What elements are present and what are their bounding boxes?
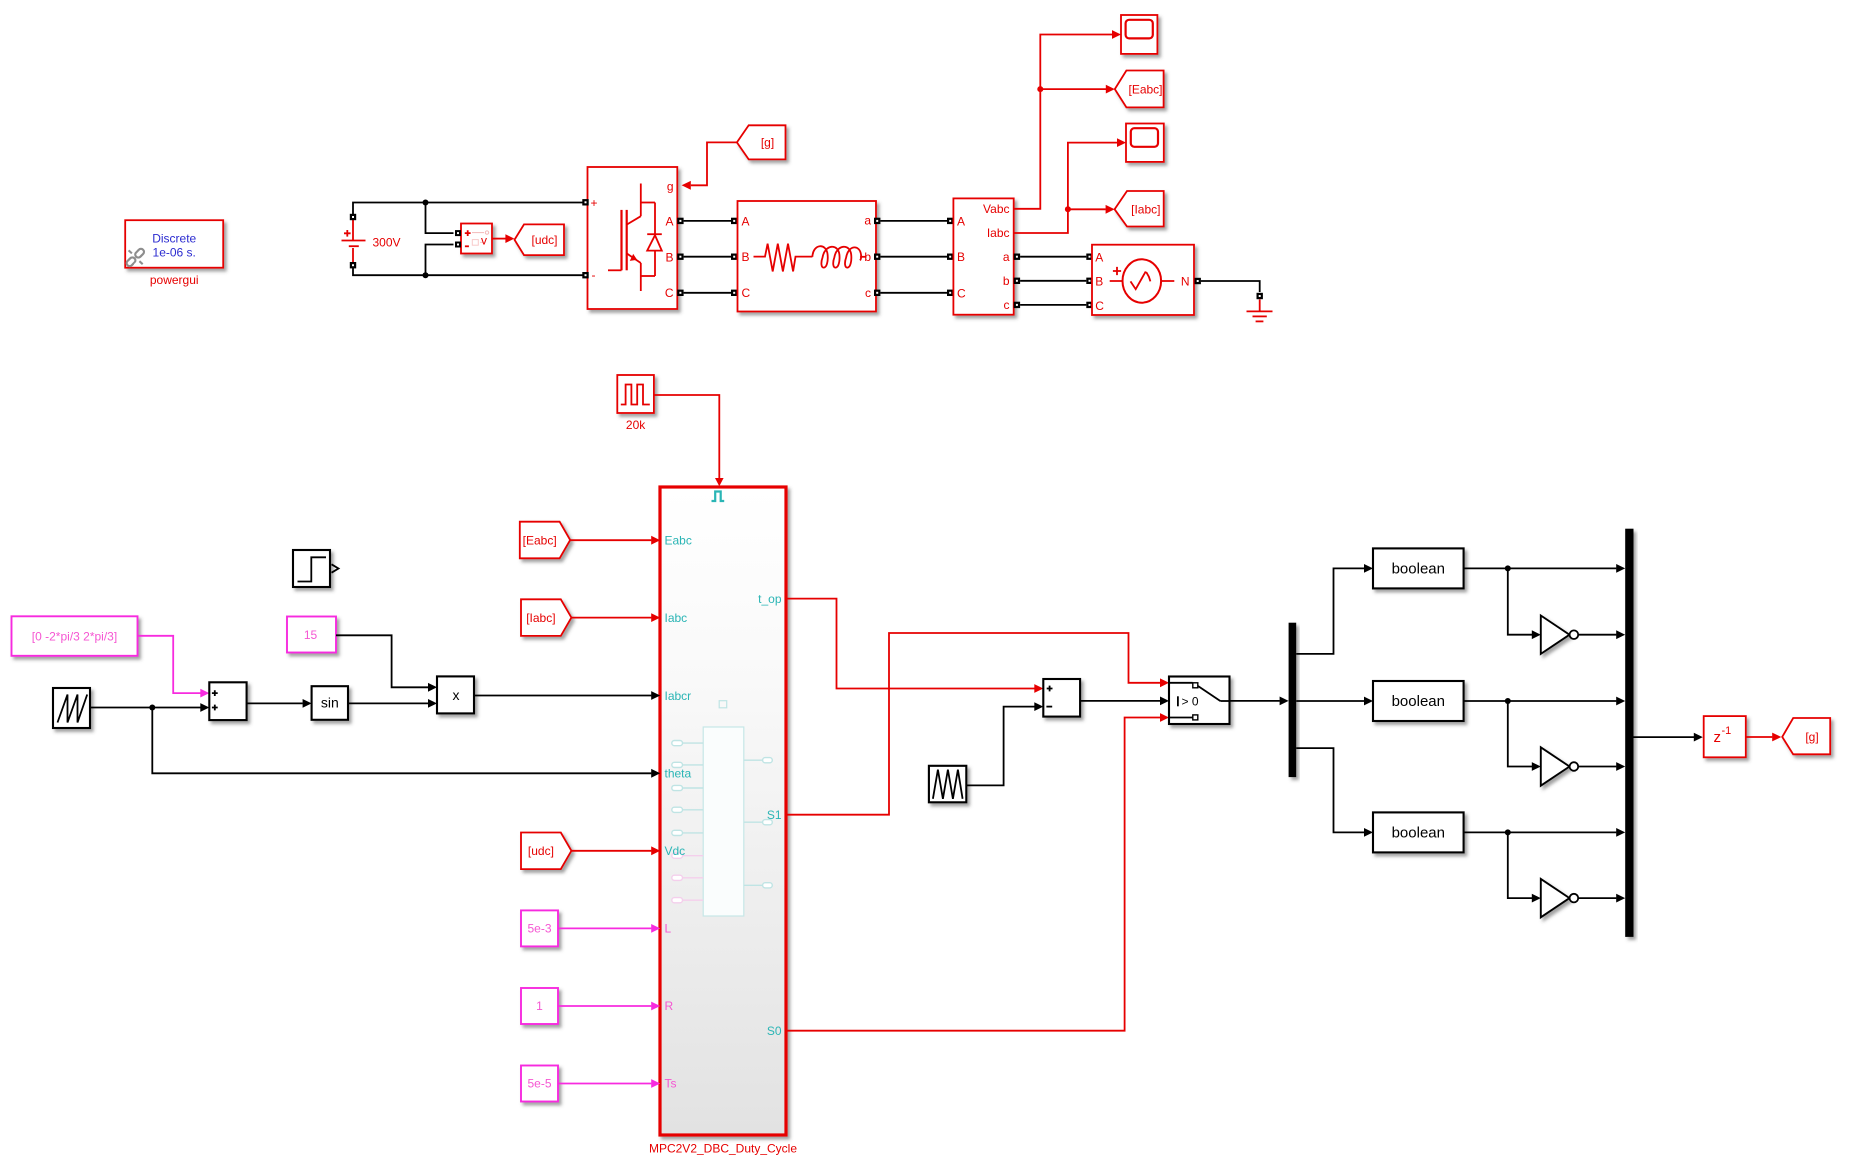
wire: NOT1 to mux in2 [1578, 634, 1616, 636]
sum block 2 (+/-) [1043, 679, 1080, 717]
svg-text:B: B [1095, 275, 1103, 289]
svg-text:z: z [1714, 729, 1722, 746]
wire: RL b to measurement B [880, 256, 947, 258]
svg-text:> 0: > 0 [1182, 694, 1199, 708]
svg-text:[g]: [g] [1805, 730, 1818, 744]
svg-text:S1: S1 [767, 808, 782, 822]
svg-text:[Eabc]: [Eabc] [1128, 82, 1162, 96]
wire: boolean2 to mux in3 [1464, 700, 1617, 702]
three-phase V-I measurement block [953, 198, 1013, 314]
svg-text:L: L [665, 922, 672, 936]
port: bridge output C [677, 290, 683, 296]
wire: MPC S0 to switch input 3 [786, 718, 1160, 1031]
wire: sum1 to sin [247, 702, 303, 704]
wire: branch to NOT gate 1 [1508, 568, 1532, 634]
unit delay z^-1 [1704, 716, 1746, 757]
port: bridge + input [582, 199, 588, 205]
svg-text:5e-3: 5e-3 [527, 922, 551, 936]
wire: MPC t_op to sum2 + [786, 599, 1035, 689]
node: boolean3 branch [1505, 829, 1511, 835]
pulse generator 20k [617, 375, 654, 413]
svg-text:MPC2V2_DBC_Duty_Cycle: MPC2V2_DBC_Duty_Cycle [649, 1142, 797, 1156]
svg-text:1e-06 s.: 1e-06 s. [153, 245, 196, 259]
wire: branch to NOT gate 2 [1508, 701, 1532, 767]
svg-text:A: A [742, 214, 750, 228]
demux bar [1289, 623, 1297, 777]
svg-text:[0 -2*pi/3 2*pi/3]: [0 -2*pi/3 2*pi/3] [32, 629, 117, 643]
svg-text:C: C [665, 286, 674, 300]
svg-text:A: A [665, 214, 673, 228]
port: voltage measurement - input [455, 242, 461, 248]
svg-text:R: R [665, 999, 674, 1013]
port: RL input B [731, 254, 737, 260]
wire: measurement a to source A [1020, 256, 1086, 258]
trigger port icon [712, 492, 725, 502]
svg-text:Eabc: Eabc [665, 534, 692, 548]
goto tag [Eabc] [1115, 71, 1164, 108]
port: measurement output a [1014, 254, 1020, 260]
constant 5e-5 [521, 1066, 558, 1102]
IGBT with antiparallel diode icon [608, 184, 662, 292]
svg-text:N: N [1181, 275, 1190, 289]
port: source input C [1086, 302, 1092, 308]
constant 5e-3 [521, 910, 558, 946]
from tag [g] feeding bridge gate [737, 125, 786, 159]
wire: [Eabc] to MPC Eabc [570, 539, 651, 541]
sin block [312, 686, 348, 720]
svg-text:Vdc: Vdc [665, 844, 686, 858]
svg-text:theta: theta [665, 767, 692, 781]
wire: NOT2 to mux in4 [1578, 766, 1616, 768]
wire: boolean3 to mux in5 [1464, 831, 1617, 833]
wire: measurement c to source C [1020, 304, 1086, 306]
svg-text:Iabcr: Iabcr [665, 689, 692, 703]
port: step unconnected output [332, 564, 339, 572]
wire: branch to MPC theta [152, 708, 651, 774]
port: measurement input C [947, 290, 953, 296]
svg-text:Discrete: Discrete [152, 231, 196, 245]
node: boolean1 branch [1505, 565, 1511, 571]
svg-text:Ts: Ts [665, 1077, 677, 1091]
goto tag [Iabc] [1115, 191, 1164, 227]
interior preview: right pills and stubs [744, 758, 773, 888]
svg-text:boolean: boolean [1392, 561, 1445, 578]
wire: [Iabc] to MPC Iabc [571, 617, 651, 619]
wire: RL a to measurement A [880, 220, 947, 222]
wire: NOT3 to mux in6 [1578, 897, 1616, 899]
svg-text:[g]: [g] [761, 136, 774, 150]
wire: MPC S1 to switch input 1 [786, 633, 1160, 815]
wire: [g] to bridge gate input [691, 142, 737, 185]
svg-text:[Iabc]: [Iabc] [526, 611, 555, 625]
svg-text:powergui: powergui [150, 273, 199, 287]
svg-text:A: A [1095, 251, 1103, 265]
wire: boolean1 to mux in1 [1464, 567, 1617, 569]
port: bridge - input [582, 272, 588, 278]
switch block (criteria > 0) [1169, 677, 1230, 725]
wire: demux out1 to boolean1 [1296, 568, 1364, 654]
svg-text:[udc]: [udc] [531, 233, 557, 247]
inductor icon [812, 246, 866, 267]
wire: demux out3 to boolean3 [1296, 748, 1364, 832]
port: RL output b [874, 254, 880, 260]
svg-text:+: + [591, 196, 598, 210]
three-phase series RL branch block [738, 201, 877, 312]
wire: voltage measurement v to [udc] goto [492, 238, 506, 240]
wire: sawtooth1 to sum1 [90, 707, 201, 709]
wire: phase constant to sum1 [138, 636, 201, 693]
wire: 15 to product [336, 635, 428, 687]
powergui block [125, 220, 223, 268]
mux bar [1625, 529, 1633, 937]
sum block 1 [209, 682, 246, 720]
goto tag [udc] [515, 224, 565, 255]
wire: unit delay to [g] goto [1746, 736, 1773, 738]
svg-text:x: x [453, 687, 460, 703]
svg-text:[udc]: [udc] [528, 844, 554, 858]
port: DC source + terminal [350, 214, 356, 220]
wire: [udc] to MPC Vdc [571, 850, 651, 852]
svg-text:A: A [957, 214, 965, 228]
ground symbol [1247, 299, 1273, 321]
from tag [udc] [521, 833, 571, 870]
product block x [437, 676, 474, 713]
svg-text:B: B [742, 250, 750, 264]
wire: sawtooth2 to sum2 - [966, 707, 1034, 786]
svg-text:C: C [957, 287, 966, 301]
constant 1 [521, 988, 558, 1024]
port: source input A [1086, 254, 1092, 260]
MPC2V2_DBC_Duty_Cycle subsystem block [660, 487, 786, 1135]
wire: product to MPC Iabcr [474, 695, 651, 697]
svg-text:c: c [1004, 298, 1010, 312]
svg-text:boolean: boolean [1392, 825, 1445, 842]
node: boolean2 branch [1505, 698, 1511, 704]
boolean conversion block 2 [1373, 681, 1464, 721]
wire: bridge A to RL branch A [684, 220, 731, 222]
boolean conversion block 1 [1373, 548, 1464, 588]
wire: Vabc to scope1 and [Eabc] [1014, 35, 1112, 209]
port: RL output a [874, 218, 880, 224]
NOT gate 3 [1541, 879, 1578, 917]
svg-text:15: 15 [304, 628, 318, 642]
svg-text:-: - [592, 268, 596, 282]
port: measurement input A [947, 218, 953, 224]
wire: N to ground [1201, 281, 1260, 292]
svg-text:t_op: t_op [758, 592, 782, 606]
wire: 5e-5 to MPC Ts [558, 1083, 651, 1085]
wire: Iabc to scope2 and [Iabc] [1014, 143, 1117, 233]
svg-text:5e-5: 5e-5 [527, 1077, 551, 1091]
svg-text:S0: S0 [767, 1024, 782, 1038]
svg-text:-1: -1 [1722, 725, 1732, 737]
svg-text:300V: 300V [373, 235, 401, 249]
voltage measurement block U_vm [461, 224, 492, 254]
wire: switch to demux [1230, 700, 1280, 702]
svg-text:a: a [864, 213, 871, 227]
wire: sum2 to switch input 2 [1080, 700, 1160, 702]
interior preview: small square [719, 701, 727, 708]
svg-text:B: B [957, 250, 965, 264]
scope 1 [1121, 15, 1157, 54]
wire: DC- rail battery to bridge [353, 267, 583, 275]
wire: bridge B to RL branch B [684, 256, 731, 258]
port: ground terminal [1257, 293, 1263, 299]
resistor icon [754, 244, 813, 272]
DC voltage source 300V [342, 220, 366, 262]
constant [0 -2*pi/3 2*pi/3] [12, 616, 138, 656]
wire: sin to product [348, 702, 428, 704]
port: RL input C [731, 290, 737, 296]
node: sawtooth branch [149, 705, 155, 711]
port: voltage measurement + input [455, 230, 461, 236]
three-phase programmable source block [1092, 245, 1194, 315]
svg-text:sin: sin [321, 694, 339, 710]
wire: pulse generator to MPC trigger [654, 395, 719, 478]
port: source input B [1086, 278, 1092, 284]
repeating sequence sawtooth1 [53, 688, 90, 728]
boolean conversion block 3 [1373, 812, 1464, 852]
constant 15 [287, 617, 336, 653]
svg-text:[Eabc]: [Eabc] [523, 533, 557, 547]
wire: measurement b to source B [1020, 280, 1086, 282]
svg-text:B: B [665, 251, 673, 265]
wire: branch to NOT gate 3 [1508, 832, 1532, 898]
svg-text:C: C [1095, 299, 1104, 313]
port: DC source - terminal [350, 262, 356, 268]
svg-text:a: a [1003, 250, 1010, 264]
svg-text:[Iabc]: [Iabc] [1131, 202, 1160, 216]
wire: bridge C to RL branch C [684, 292, 731, 294]
svg-text:c: c [865, 286, 871, 300]
universal bridge (IGBT converter) U_br [588, 167, 678, 309]
interior preview: central rectangle [703, 727, 744, 916]
svg-text:g: g [667, 179, 674, 193]
svg-text:Iabc: Iabc [665, 611, 688, 625]
port: RL input A [731, 218, 737, 224]
wire: rail to voltage measurement - [426, 245, 454, 276]
port: bridge output B [677, 254, 683, 260]
scope 2 [1126, 124, 1164, 162]
port: measurement input B [947, 254, 953, 260]
svg-text:20k: 20k [626, 418, 646, 432]
NOT gate 2 [1541, 747, 1578, 785]
interior preview: left pills and stubs [672, 741, 703, 836]
port: source N output [1195, 278, 1201, 284]
goto tag [g] [1782, 718, 1830, 754]
from tag [Eabc] [520, 522, 570, 559]
svg-text:C: C [742, 286, 751, 300]
svg-text:boolean: boolean [1392, 693, 1445, 710]
port: bridge output A [677, 218, 683, 224]
wire: demux out2 to boolean2 [1296, 700, 1364, 702]
svg-text:Vabc: Vabc [983, 202, 1009, 216]
svg-text:1: 1 [536, 999, 543, 1013]
NOT gate 1 [1541, 616, 1578, 654]
svg-text:v: v [481, 234, 487, 248]
port: RL output c [874, 290, 880, 296]
svg-text:Iabc: Iabc [987, 226, 1010, 240]
port: measurement output c [1014, 302, 1020, 308]
wire: DC+ rail battery to bridge [353, 203, 583, 217]
repeating sequence sawtooth2 [929, 766, 966, 803]
svg-text:b: b [1003, 274, 1010, 288]
node: junction on DC- rail [423, 272, 429, 278]
from tag [Iabc] [521, 599, 571, 636]
step block [293, 550, 330, 587]
wire: mux to unit delay [1634, 736, 1695, 738]
wire: 1 to MPC R [558, 1005, 651, 1007]
wire: 5e-3 to MPC L [558, 927, 651, 929]
port: measurement output b [1014, 278, 1020, 284]
wire: RL c to measurement C [880, 292, 947, 294]
wire: rail to voltage measurement + [426, 203, 454, 234]
node: junction on DC+ rail [423, 200, 429, 206]
